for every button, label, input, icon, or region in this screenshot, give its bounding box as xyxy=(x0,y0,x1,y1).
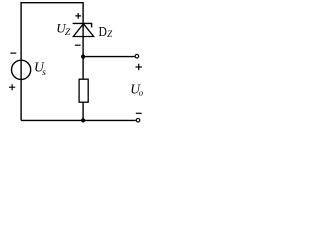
svg-text:Z: Z xyxy=(65,27,71,38)
svg-text:s: s xyxy=(42,68,46,78)
svg-text:o: o xyxy=(139,87,144,97)
svg-text:D: D xyxy=(99,24,108,39)
